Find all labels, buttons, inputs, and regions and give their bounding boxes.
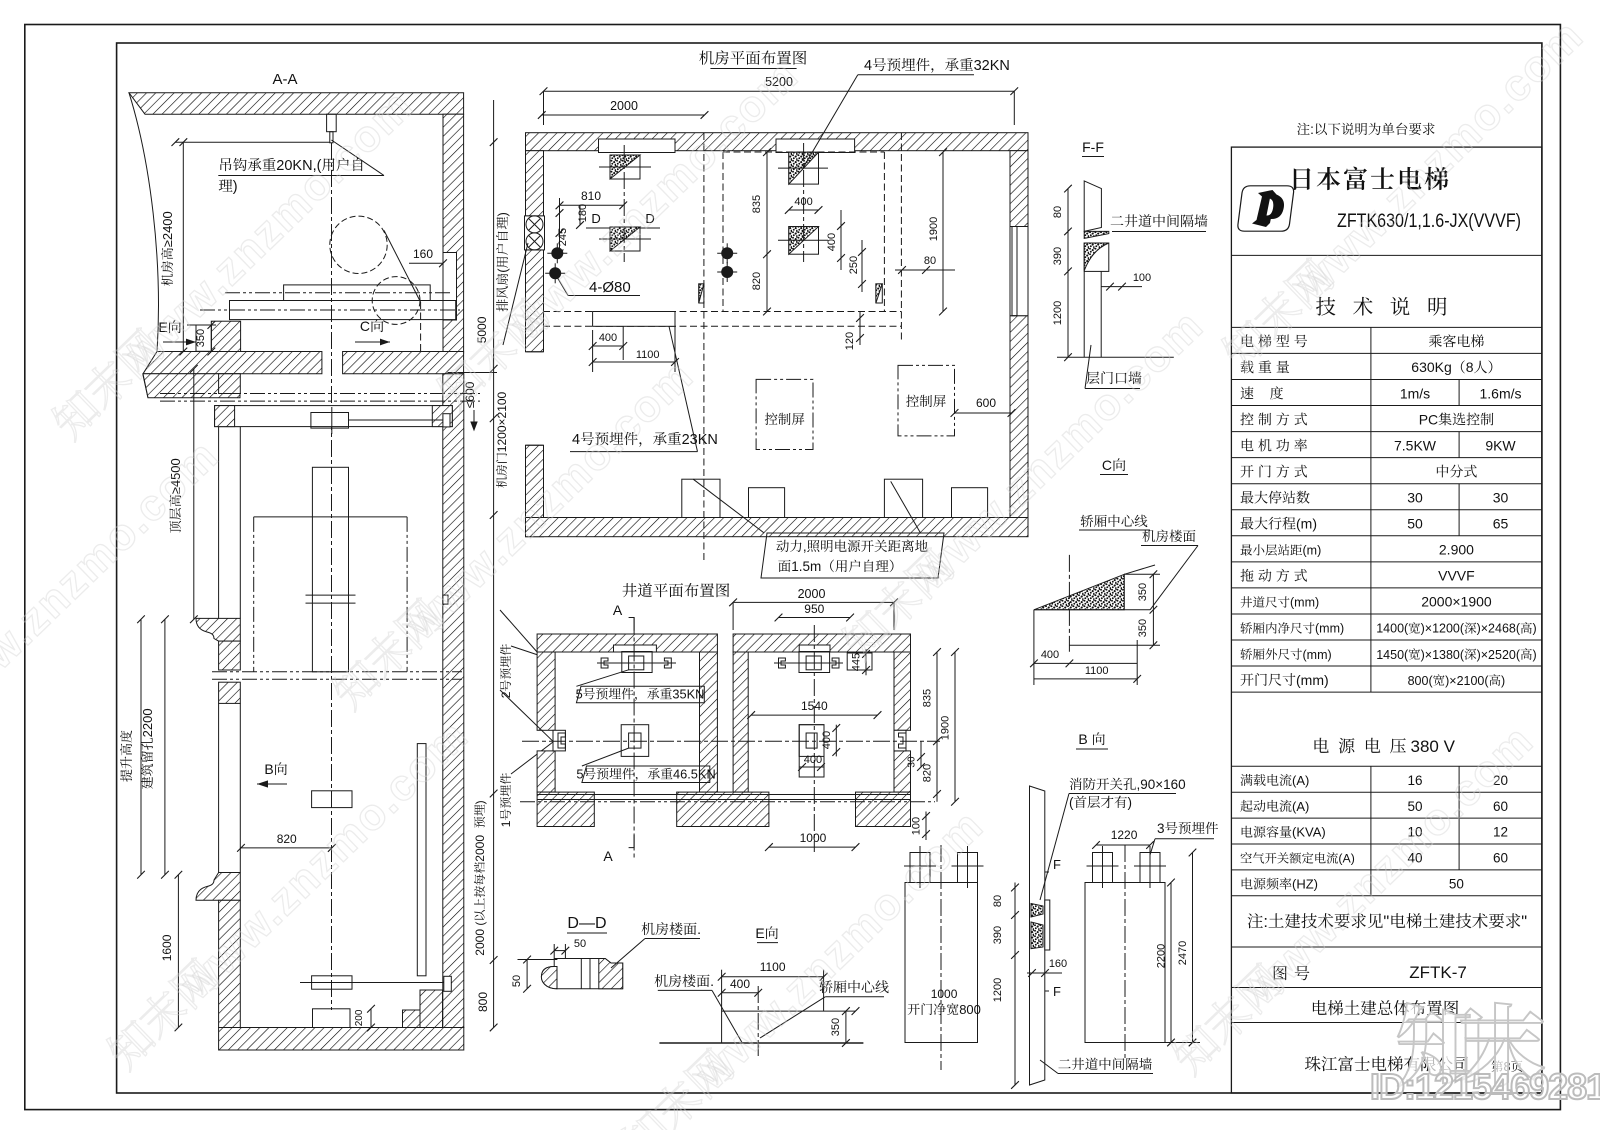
dim 1600 <box>177 875 179 1028</box>
dim 顶层高4500 <box>193 369 195 619</box>
dim 445 rotated <box>865 649 867 675</box>
svg-text:400: 400 <box>826 233 838 251</box>
dims 400 400 center right block <box>835 725 837 757</box>
svg-text:80: 80 <box>992 895 1004 907</box>
main horizontal centerline <box>522 740 940 742</box>
pit buffer <box>313 1009 351 1028</box>
guide bracket middle <box>312 791 352 808</box>
leader lines from note to plan <box>693 479 764 533</box>
svg-text:A: A <box>603 848 613 864</box>
svg-text:1m/s: 1m/s <box>1400 385 1430 401</box>
machine support pillar left (hatched) <box>211 321 240 351</box>
label 4号预埋件承重32KN top <box>864 58 1010 74</box>
label 二井道中间隔墙 bottom <box>1058 1058 1151 1070</box>
logo box <box>1238 186 1294 231</box>
svg-text:50: 50 <box>1407 516 1423 532</box>
shaft top divider beam <box>215 406 453 427</box>
left block vertical centerline <box>633 618 635 859</box>
right block top wall niche <box>799 645 830 652</box>
svg-text:B: B <box>1078 731 1087 747</box>
svg-text:400: 400 <box>730 977 750 991</box>
left break line curve <box>129 93 158 398</box>
svg-text:1: 1 <box>499 820 513 827</box>
power section title 电源电压380V <box>1314 737 1455 756</box>
svg-text:245: 245 <box>557 228 569 246</box>
right wall pocket <box>444 976 452 991</box>
plan title 机房平面布置图 <box>699 50 806 64</box>
row 电机功率 <box>1242 439 1307 452</box>
C向 hatched wedge <box>1034 574 1124 610</box>
B向 separator wall strip <box>1030 786 1045 1085</box>
svg-text:1900: 1900 <box>940 716 952 740</box>
dim 5200 overall <box>544 90 1015 92</box>
machine room bottom wall (hatched) <box>526 518 1029 537</box>
row 电源频率(HZ) <box>1242 877 1318 892</box>
label 2号预埋件 rotated <box>499 644 513 698</box>
svg-text:400: 400 <box>1041 649 1059 661</box>
svg-text:1100: 1100 <box>1085 665 1109 677</box>
row 起动电流(A) <box>1240 799 1309 814</box>
label 5号预埋件承重46.5KN box <box>582 766 710 783</box>
svg-text:): ) <box>1533 622 1537 636</box>
watermark tiles <box>116 80 423 379</box>
embed plate P1 (4号) with concrete corner <box>610 155 640 179</box>
svg-text:1900: 1900 <box>928 217 940 241</box>
left wall thin part (door opening zone) <box>218 703 220 872</box>
svg-text:A: A <box>613 602 623 618</box>
control panel 2 dashed box <box>898 365 955 436</box>
E向 label 轿厢中心线 <box>819 980 888 993</box>
svg-text:2000: 2000 <box>610 99 638 113</box>
row 最大行程(m) <box>1241 516 1317 532</box>
E向 ground line <box>659 1042 863 1044</box>
row 速度 <box>1241 386 1284 399</box>
machine body upper <box>284 285 431 301</box>
corbel upper on left wall (ogee) <box>196 618 240 641</box>
E向 label 机房楼面 <box>655 973 714 989</box>
label 二井道中间隔墙 F-F <box>1111 214 1208 227</box>
B向 dims 80 390 1200 160 <box>1014 883 1016 1086</box>
deflector sheave (dashed circle) <box>372 277 420 325</box>
svg-text:(m): (m) <box>1303 544 1322 558</box>
F-F dim 100 <box>1101 286 1142 288</box>
E向 title <box>755 925 778 941</box>
left box top tees <box>910 853 930 883</box>
right block vertical centerline <box>813 625 815 852</box>
row 轿厢内净尺寸(mm) <box>1240 622 1344 636</box>
rope centerline vertical <box>331 143 333 1010</box>
row 拖动方式 <box>1240 569 1307 582</box>
svg-text:1600: 1600 <box>160 934 174 961</box>
left box labels 1000 开门净宽800 <box>931 987 958 1001</box>
right side dim chain 835 1900 30 820 100 <box>936 652 938 741</box>
svg-text:2.900: 2.900 <box>1439 542 1474 558</box>
E向 leaders <box>712 990 742 1043</box>
svg-text:60: 60 <box>1493 851 1508 866</box>
svg-text:.: . <box>697 921 701 937</box>
D-D title <box>567 915 606 932</box>
svg-text:(mm): (mm) <box>1296 672 1329 688</box>
plate centerlines vertical <box>623 145 625 262</box>
embed plate P3 <box>789 152 819 184</box>
row 最小层站距(m) <box>1241 544 1322 558</box>
svg-text:(mm): (mm) <box>1315 622 1344 636</box>
label B向 with arrow in shaft <box>264 761 287 777</box>
control panel 1 dashed box <box>756 379 813 449</box>
row 井道尺寸(mm) <box>1241 596 1320 610</box>
counterweight / plunger <box>312 467 348 672</box>
svg-text:390: 390 <box>992 926 1004 944</box>
D-D dim 50 top <box>554 950 565 952</box>
svg-text:120: 120 <box>844 332 856 350</box>
level lines dashdotdot across shaft <box>212 671 462 673</box>
svg-text:820: 820 <box>922 764 934 782</box>
shaft right wall (hatched) <box>443 374 464 1028</box>
section title 技术说明 <box>1316 297 1446 316</box>
label 排风扇(用户自理) rotated <box>495 212 510 311</box>
left block left wall <box>537 652 555 730</box>
svg-text:B: B <box>264 761 273 777</box>
svg-text:1.6m/s: 1.6m/s <box>1480 385 1522 401</box>
C向 leader 机房楼面 <box>1150 546 1198 610</box>
rail bracket line <box>300 982 452 984</box>
car outline <box>254 516 407 518</box>
wall strip embed speckles <box>1031 904 1043 918</box>
dim 950 <box>779 617 851 619</box>
label D-D cut marks <box>591 211 600 226</box>
svg-text:4: 4 <box>864 58 872 74</box>
F-F dims 80 390 1200 <box>1067 189 1069 358</box>
F-F wall lower part <box>1083 271 1085 357</box>
svg-text:7.5KW: 7.5KW <box>1394 437 1437 453</box>
svg-text:100: 100 <box>911 817 923 835</box>
tie line to right wall <box>349 419 444 421</box>
guide bracket lower <box>312 976 352 989</box>
leaders to left labels <box>500 610 537 652</box>
right wall beam pocket 160 <box>443 253 457 321</box>
svg-text:2470: 2470 <box>1177 941 1189 965</box>
shaft plan left block top wall <box>537 634 717 652</box>
svg-text:630Kg: 630Kg <box>1411 359 1451 375</box>
guide rail right <box>417 744 426 976</box>
left block top wall niche <box>614 645 657 652</box>
svg-text:2000: 2000 <box>473 835 487 862</box>
machine room door opening left wall <box>526 351 543 353</box>
pit right ledge steps (hatched) <box>403 1010 421 1028</box>
svg-text:80: 80 <box>924 255 936 267</box>
right wall pockets <box>443 414 450 427</box>
svg-text:2: 2 <box>499 691 513 698</box>
dims room2 <box>766 152 768 311</box>
right wall window <box>1010 227 1028 316</box>
svg-text:F-F: F-F <box>1082 139 1104 155</box>
dim 2000 left <box>542 114 705 116</box>
corbel lower on left wall (ogee) <box>196 873 240 901</box>
dim 200 pit <box>370 1009 372 1028</box>
svg-text:32KN: 32KN <box>974 58 1010 74</box>
company row <box>1305 1056 1468 1071</box>
svg-text:2200: 2200 <box>1156 944 1168 968</box>
F section letters <box>1053 857 1061 872</box>
svg-text:1000: 1000 <box>931 987 958 1001</box>
svg-text:)×1380(: )×1380( <box>1421 648 1465 662</box>
F-F title <box>1082 139 1104 155</box>
svg-text:3: 3 <box>1157 821 1165 836</box>
svg-text:2200: 2200 <box>140 708 155 737</box>
dim 机房高2400 <box>182 142 184 351</box>
machine room floor slab right part (hatched) <box>343 352 464 374</box>
dim 1220 and 3号预埋件 <box>1096 844 1150 846</box>
svg-text:(mm): (mm) <box>1290 596 1319 610</box>
right block center embed square <box>799 725 824 757</box>
F-F wall upper part <box>1084 181 1101 232</box>
svg-text:(KVA): (KVA) <box>1292 825 1326 840</box>
svg-text:5: 5 <box>576 687 583 702</box>
label 消防开关孔 <box>1070 777 1186 792</box>
svg-text:(: ( <box>1069 795 1074 810</box>
door sill lines across bottom <box>537 794 910 796</box>
svg-text:100: 100 <box>1133 272 1151 284</box>
svg-text:F: F <box>1053 857 1061 872</box>
svg-text:2000 (: 2000 ( <box>473 922 487 956</box>
machine room right wall (hatched) <box>443 114 464 353</box>
rope line diagonal <box>384 230 421 302</box>
svg-text:820: 820 <box>277 832 297 846</box>
big corner watermark 知末 <box>1398 1003 1544 1087</box>
svg-text:,: , <box>803 539 807 554</box>
C向 labels <box>1081 515 1148 527</box>
svg-text:1200: 1200 <box>992 978 1004 1002</box>
svg-text:400: 400 <box>794 196 812 208</box>
svg-text:180: 180 <box>577 204 589 222</box>
label 提升高度 <box>120 730 132 781</box>
machine room top wall (hatched) <box>526 133 1029 151</box>
left block left wall bracket slot <box>553 730 565 751</box>
svg-text:≥2400: ≥2400 <box>160 211 175 247</box>
right block top wall <box>733 634 910 652</box>
row 空气开关额定电流(A) <box>1241 852 1355 866</box>
B向 right box (shaft front) <box>1085 883 1165 1043</box>
svg-text::: : <box>1310 122 1314 137</box>
svg-text:1400(: 1400( <box>1376 622 1409 636</box>
machine room right wall (hatched) <box>1010 151 1028 227</box>
rope holes 4-Ø80 circles <box>551 247 563 259</box>
svg-text:800: 800 <box>959 1002 981 1017</box>
right block extra plate 445 <box>847 653 872 670</box>
svg-text:80: 80 <box>1052 206 1064 218</box>
dim 160 <box>413 247 433 261</box>
svg-text:16: 16 <box>1408 773 1423 788</box>
svg-text:VVVF: VVVF <box>1438 568 1475 584</box>
svg-text:): ) <box>473 800 487 804</box>
F-F ground line <box>1057 356 1174 358</box>
civil note row <box>1248 913 1528 931</box>
svg-text:F: F <box>1053 984 1061 999</box>
right block right wall bracket slot <box>894 730 906 751</box>
svg-text:50: 50 <box>574 938 586 950</box>
svg-text:)×1200(: )×1200( <box>1421 622 1465 636</box>
svg-text:350: 350 <box>830 1018 842 1036</box>
table outer box <box>1231 147 1542 1093</box>
bottom center wall piece <box>677 792 769 826</box>
row 满载电流(A) <box>1240 773 1309 788</box>
svg-text:445: 445 <box>851 653 863 671</box>
dim 820 in shaft <box>241 847 332 849</box>
left wall hatched seg below corbel <box>219 641 241 670</box>
E向 floor level line <box>722 1010 856 1012</box>
B向 view title <box>1078 731 1104 747</box>
svg-text:950: 950 <box>804 602 824 616</box>
svg-text:30: 30 <box>1407 490 1423 506</box>
machine centerlines dash-dot-dot <box>225 292 452 294</box>
door sill niche below room1 <box>593 312 675 327</box>
svg-text:C: C <box>360 318 370 334</box>
bottom wall piers <box>682 479 720 517</box>
E向 verticals <box>721 970 723 1043</box>
svg-text:)×2100(: )×2100( <box>1445 674 1489 688</box>
svg-text:PC: PC <box>1419 411 1438 427</box>
svg-text:400: 400 <box>821 731 833 749</box>
line under logo section <box>1231 254 1542 256</box>
svg-text:390: 390 <box>1052 247 1064 265</box>
D-D sill shape <box>541 959 622 989</box>
shaft left wall lower (hatched) <box>219 900 241 1027</box>
svg-text:160: 160 <box>1049 958 1067 970</box>
svg-text:800: 800 <box>476 992 490 1012</box>
svg-text:): ) <box>495 212 510 216</box>
E向 dim 400 <box>722 992 759 994</box>
svg-text::: : <box>1263 913 1268 931</box>
floor lower-left ledge (hatched) <box>143 374 240 398</box>
exhaust fan symbol <box>525 216 545 250</box>
label 层门口墙 <box>1086 371 1141 384</box>
svg-text:(m): (m) <box>1296 516 1317 532</box>
right block bottom-right wall piece <box>856 792 911 826</box>
svg-text:": " <box>1521 913 1527 931</box>
svg-text:E: E <box>755 925 764 941</box>
dim 2000 right block <box>733 601 894 603</box>
svg-text:D—D: D—D <box>567 915 606 932</box>
right block left wall <box>733 652 748 792</box>
drawing number row <box>1274 966 1310 980</box>
svg-text:50: 50 <box>511 975 523 987</box>
E向 dim 350 <box>845 1011 847 1043</box>
left block bottom-left wall piece <box>537 792 594 826</box>
svg-text:1200×2100: 1200×2100 <box>495 391 509 452</box>
label 吊钩承重20KN (用户自理) <box>220 158 362 174</box>
label 4-Ø80 <box>589 279 631 296</box>
svg-text:46.5KN: 46.5KN <box>673 767 716 782</box>
svg-text:250: 250 <box>848 256 860 274</box>
A section marker bottom <box>603 848 613 864</box>
hook dim line <box>175 141 329 143</box>
svg-text:)×2468(: )×2468( <box>1477 622 1521 636</box>
svg-text:380 V: 380 V <box>1411 737 1456 756</box>
svg-text:): ) <box>1533 648 1537 662</box>
shaft plan title 井道平面布置图 <box>622 583 729 597</box>
D-D dim 50 left <box>526 960 528 989</box>
traction sheave (dashed circle) <box>330 216 387 273</box>
svg-text:9KW: 9KW <box>1485 437 1516 453</box>
right box top tees <box>1093 853 1113 883</box>
svg-text:65: 65 <box>1493 516 1509 532</box>
left block center embed square <box>621 725 649 757</box>
top wall niche 2 <box>776 139 855 153</box>
svg-text:(A): (A) <box>1292 773 1309 788</box>
row 最大停站数 <box>1241 491 1310 504</box>
dim 1540 <box>751 714 877 716</box>
leader to hook <box>331 140 384 176</box>
svg-text:60: 60 <box>1493 799 1508 814</box>
svg-text:): ) <box>1501 674 1505 688</box>
svg-text:1.5m: 1.5m <box>791 559 821 574</box>
right dim chain x=493 <box>493 100 495 1028</box>
svg-text:(A): (A) <box>1292 799 1309 814</box>
row 电梯型号 <box>1242 334 1307 347</box>
label 5号预埋件承重35KN box <box>576 686 704 703</box>
embed plate P4 <box>789 227 819 255</box>
svg-text:(mm): (mm) <box>1303 648 1332 662</box>
label E向 with arrow <box>158 319 181 335</box>
A-A section title <box>273 71 298 88</box>
floor step notch left <box>196 325 211 351</box>
brand title 日本富士电梯 <box>1294 167 1449 191</box>
svg-text:8: 8 <box>1466 359 1474 375</box>
svg-text:400: 400 <box>804 754 822 766</box>
dashed car outline projections in plan <box>703 133 705 560</box>
left block right wall <box>700 652 718 792</box>
row 轿厢外尺寸(mm) <box>1240 648 1331 662</box>
drawing title row <box>1313 1000 1458 1015</box>
dims 400 1100 <box>592 330 594 372</box>
right block top embed assembly <box>799 652 830 673</box>
pit floor slab (hatched) <box>219 1028 464 1051</box>
label 1号预埋件 rotated <box>499 773 513 827</box>
svg-text:): ) <box>233 179 238 195</box>
F-F wedge speckle <box>1084 231 1109 238</box>
D-D label 机房楼面 <box>642 921 701 937</box>
svg-text:(A): (A) <box>1338 852 1354 866</box>
svg-text:50: 50 <box>1449 877 1464 892</box>
guide bracket top <box>311 413 349 429</box>
A section marker top <box>613 602 623 618</box>
svg-text:(HZ): (HZ) <box>1292 877 1318 892</box>
machine body lower (bedplate) <box>230 301 456 320</box>
svg-text:C: C <box>1102 457 1112 473</box>
svg-text:(: ( <box>495 268 510 273</box>
left block top embed assembly <box>622 652 652 673</box>
row 开门方式 <box>1241 465 1308 478</box>
hoist hook <box>327 114 337 132</box>
svg-text:1450(: 1450( <box>1376 648 1409 662</box>
svg-text:1220: 1220 <box>1111 828 1138 842</box>
dim 600 right <box>955 412 1012 414</box>
svg-text:2000: 2000 <box>798 587 826 601</box>
svg-text:23KN: 23KN <box>682 432 718 448</box>
svg-text:ZFTK-7: ZFTK-7 <box>1409 963 1467 982</box>
dim 350 left <box>210 325 212 352</box>
svg-text:810: 810 <box>581 189 601 203</box>
C向 view title <box>1102 457 1125 473</box>
left wall hatched seg 2 <box>219 682 241 703</box>
dim 1000 bottom <box>769 846 856 848</box>
svg-text:)×2520(: )×2520( <box>1477 648 1521 662</box>
svg-text:35KN: 35KN <box>672 687 704 702</box>
svg-text:350: 350 <box>1137 619 1149 637</box>
floor-to-chain tie line <box>448 372 498 374</box>
svg-text:": " <box>1383 913 1389 931</box>
svg-text:1000: 1000 <box>800 831 827 845</box>
